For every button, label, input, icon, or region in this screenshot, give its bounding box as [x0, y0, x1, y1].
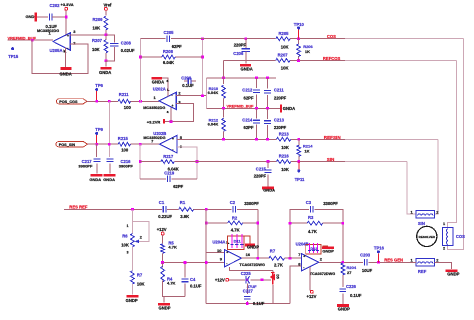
junction [222, 107, 225, 110]
capacitor C225 [246, 276, 250, 283]
svg-text:MC33502DG: MC33502DG [143, 106, 165, 110]
svg-text:R7: R7 [270, 249, 276, 254]
wire bottom bias rail [206, 303, 290, 305]
svg-text:62PF: 62PF [244, 95, 254, 100]
power symbol +3.2VR [163, 119, 165, 123]
svg-text:GNDP: GNDP [447, 271, 459, 276]
test point TP15 [11, 47, 14, 50]
wire output U204A [242, 257, 269, 259]
svg-text:C206: C206 [233, 51, 244, 56]
svg-text:+12V: +12V [157, 227, 167, 232]
svg-text:TP9: TP9 [95, 127, 103, 132]
svg-text:TP10: TP10 [294, 22, 305, 27]
svg-text:4.7K: 4.7K [231, 227, 240, 232]
junction node inverting input A [139, 100, 142, 103]
resistor R206 [298, 39, 300, 45]
op-amp U202A MC33502DG [159, 92, 176, 109]
svg-text:C2: C2 [230, 200, 236, 205]
ground GNDA C206 [240, 64, 251, 67]
wire COS loop [448, 39, 464, 250]
svg-text:0.1UF: 0.1UF [190, 283, 202, 288]
power symbol +12V U204B [310, 290, 313, 293]
wire pin9 rail [163, 261, 225, 263]
junction [139, 160, 142, 163]
junction [255, 76, 258, 79]
wire pin2 to feedback [176, 95, 207, 97]
wire output U204B [319, 261, 363, 263]
resistor R203 [104, 40, 108, 53]
capacitor C2 [233, 206, 236, 212]
wire REFCOS drop [223, 60, 225, 77]
svg-text:R7: R7 [137, 272, 143, 277]
junction [161, 261, 164, 264]
svg-text:1: 1 [127, 224, 129, 228]
svg-text:GNDP: GNDP [338, 306, 350, 311]
svg-text:1: 1 [443, 222, 445, 226]
svg-text:0.1UF: 0.1UF [253, 301, 265, 306]
svg-text:R217: R217 [163, 154, 174, 159]
svg-text:R1: R1 [180, 200, 186, 205]
junction [139, 56, 142, 59]
svg-text:100: 100 [121, 148, 129, 153]
wire [284, 257, 301, 259]
capacitor C226 [339, 289, 346, 292]
svg-text:3300PF: 3300PF [323, 201, 338, 206]
svg-text:GND: GND [26, 14, 35, 19]
svg-text:3900PF: 3900PF [78, 163, 93, 168]
pot wiper loop [132, 221, 149, 241]
svg-text:C213: C213 [274, 118, 285, 123]
wire REFCOS rail [224, 59, 276, 61]
capacitor C219 [168, 176, 171, 182]
svg-text:C202: C202 [50, 3, 61, 8]
junction [297, 160, 300, 163]
wire pin3 to divider [70, 34, 106, 36]
svg-text:COS: COS [456, 234, 465, 239]
port POS_SIN [56, 142, 88, 147]
svg-text:C209: C209 [181, 76, 192, 81]
junction [266, 107, 269, 110]
svg-text:GNDP: GNDP [159, 306, 171, 311]
junction [297, 37, 300, 40]
svg-text:R211: R211 [119, 92, 129, 97]
capacitor C3 [311, 206, 314, 212]
junction [297, 59, 300, 62]
svg-text:TP16: TP16 [374, 245, 385, 250]
svg-text:POS_CGS: POS_CGS [59, 100, 78, 104]
svg-text:0.22UF: 0.22UF [158, 214, 172, 219]
capacitor C205 [167, 36, 170, 42]
op-amp U204B V+ stub [309, 267, 311, 291]
svg-text:TCA0372DWG: TCA0372DWG [239, 263, 265, 267]
resistor R209 [104, 16, 108, 30]
wire VREFMID_BUF rail [207, 107, 280, 109]
wire REF pin2 to GNDP [434, 262, 451, 269]
wire [162, 235, 164, 243]
resistor R17 [269, 256, 285, 260]
svg-text:TCA0372DWG: TCA0372DWG [310, 272, 336, 276]
wire REFSIN loop [434, 139, 438, 214]
svg-text:C215: C215 [256, 167, 267, 172]
svg-text:RES REF: RES REF [69, 204, 88, 209]
svg-text:10K: 10K [281, 145, 289, 150]
svg-text:62PF: 62PF [172, 44, 182, 49]
junction [246, 278, 249, 281]
svg-text:220PF: 220PF [274, 95, 287, 100]
svg-text:10K: 10K [281, 66, 289, 71]
connector COS [442, 227, 452, 245]
junction [255, 107, 258, 110]
potentiometer R6 [131, 234, 135, 247]
ground GNDP R4 [163, 296, 165, 302]
wire [194, 208, 232, 210]
wire [52, 16, 66, 18]
svg-text:REFSIN: REFSIN [324, 135, 342, 140]
svg-text:C3: C3 [306, 200, 312, 205]
ground GNDP D12 [322, 245, 327, 247]
capacitor C202 [50, 14, 53, 21]
svg-text:10: 10 [217, 248, 222, 253]
wire [205, 252, 207, 303]
svg-text:GNDA: GNDA [263, 187, 275, 192]
wire C2 R2 to output [257, 209, 259, 258]
ground GNDA U202A [152, 77, 162, 80]
svg-text:U204B: U204B [296, 242, 309, 247]
wire +12V rail [228, 279, 245, 281]
svg-text:C214: C214 [242, 118, 253, 123]
resistor R205 [276, 37, 290, 41]
wire pin3 to +3.2VR [164, 103, 193, 121]
svg-text:U205A: U205A [50, 48, 63, 53]
diode network D12 [306, 245, 321, 254]
svg-text:C225: C225 [241, 271, 252, 276]
svg-text:REFCOS: REFCOS [323, 56, 341, 61]
capacitor C227 [246, 283, 248, 294]
svg-text:6.04K: 6.04K [208, 121, 219, 126]
feedback C3 R3 wires [290, 209, 309, 258]
svg-text:+12V: +12V [307, 294, 317, 299]
svg-text:R3: R3 [308, 215, 314, 220]
ground GNDP C226 [337, 304, 349, 307]
svg-text:U202A: U202A [153, 87, 166, 92]
svg-text:C227: C227 [243, 289, 254, 294]
svg-text:R207: R207 [92, 38, 103, 43]
svg-text:R208: R208 [163, 49, 174, 54]
wire [163, 281, 185, 297]
svg-text:C219: C219 [164, 171, 175, 176]
junction [201, 94, 204, 97]
svg-text:R6: R6 [122, 233, 128, 238]
wire pin6 [177, 147, 197, 179]
wire [167, 208, 179, 210]
svg-text:4.7K: 4.7K [167, 281, 176, 286]
junction [266, 76, 269, 79]
svg-text:REF: REF [418, 269, 427, 274]
ground GNDA U205A [65, 48, 67, 68]
svg-text:a: a [167, 110, 169, 114]
svg-text:+: + [226, 251, 228, 255]
svg-text:16: 16 [246, 252, 251, 257]
svg-text:C203: C203 [360, 253, 371, 258]
wire [342, 294, 344, 304]
svg-text:R2: R2 [232, 216, 238, 221]
capacitor C208 parallel [106, 35, 115, 43]
wire REFCOS loop [448, 60, 457, 227]
svg-text:TP15: TP15 [8, 54, 19, 59]
capacitor C216 wire [108, 101, 110, 157]
junction [205, 222, 208, 225]
junction [205, 208, 208, 211]
svg-text:0.02UF: 0.02UF [121, 48, 135, 53]
svg-text:62PF: 62PF [173, 184, 183, 189]
svg-text:3900PF: 3900PF [119, 163, 134, 168]
wire pot drop [131, 209, 133, 233]
junction [184, 261, 187, 264]
svg-text:10K: 10K [93, 26, 101, 31]
wire [272, 270, 274, 272]
svg-text:100: 100 [124, 105, 132, 110]
junction node [105, 33, 108, 36]
svg-text:220PF: 220PF [234, 42, 247, 47]
feedback network U202B [139, 144, 141, 179]
wire top filter rail [207, 77, 277, 79]
wire SIN rail [140, 161, 161, 163]
junction [201, 56, 204, 59]
op-amp U205A MC33502DG [53, 33, 70, 50]
svg-text:2: 2 [443, 247, 445, 251]
svg-text:GNDA: GNDA [60, 71, 72, 76]
ground GNDA C216 [103, 174, 115, 177]
op-amp U204A TCA0372DWG [225, 250, 242, 267]
connector REF [416, 258, 434, 266]
wire RES REF rail [64, 208, 162, 210]
wire [105, 30, 107, 40]
junction [297, 138, 300, 141]
resistor R1 [179, 207, 194, 211]
wire [65, 10, 67, 36]
wire feedback loop U205A [32, 40, 88, 73]
svg-text:10UF: 10UF [362, 268, 373, 273]
svg-text:SIN: SIN [327, 157, 335, 162]
resistor R5 [161, 244, 165, 254]
resistor R211 [118, 99, 130, 103]
svg-text:+: + [172, 104, 174, 108]
junction [261, 278, 264, 281]
wire [105, 10, 107, 15]
svg-text:R216: R216 [279, 153, 290, 158]
junction [256, 222, 259, 225]
svg-text:+: + [303, 255, 305, 259]
junction [255, 138, 258, 141]
junction [170, 120, 173, 123]
capacitor C213 [267, 108, 269, 119]
junction [222, 138, 225, 141]
wire R208 rail [140, 56, 161, 58]
capacitor C223 [364, 259, 367, 265]
junction [341, 261, 344, 264]
svg-text:GNDP: GNDP [126, 298, 138, 303]
svg-text:10K: 10K [281, 167, 289, 172]
svg-text:0.1UF: 0.1UF [350, 293, 362, 298]
svg-text:+: + [67, 34, 69, 38]
junction [222, 76, 225, 79]
capacitor C217 [96, 144, 98, 157]
svg-text:27: 27 [347, 270, 352, 275]
svg-text:C4: C4 [190, 277, 196, 282]
svg-text:3.9K: 3.9K [180, 214, 189, 219]
wire R2 rail [206, 222, 228, 224]
capacitor C212 [256, 78, 258, 88]
svg-text:GNDA: GNDA [241, 66, 253, 71]
svg-text:a: a [167, 79, 169, 83]
resistor R2 [228, 221, 243, 225]
svg-text:10K: 10K [137, 282, 145, 287]
capacitor C214 [256, 108, 258, 118]
wire COS rail [140, 38, 165, 40]
svg-text:+3.3VA: +3.3VA [61, 2, 74, 7]
connector SIN [416, 210, 434, 218]
svg-text:6.04K: 6.04K [163, 60, 174, 65]
svg-text:2: 2 [140, 236, 142, 240]
resistor R215 [118, 142, 130, 146]
wire [131, 100, 160, 102]
svg-text:D12: D12 [310, 247, 317, 251]
resistor R217 [161, 160, 174, 164]
svg-text:2.7K: 2.7K [274, 262, 283, 267]
svg-text:SIN: SIN [418, 221, 425, 226]
feedback network U202A wires [139, 39, 141, 102]
svg-text:R205: R205 [279, 31, 290, 36]
resistor R210 [223, 78, 225, 84]
capacitor C211 [267, 78, 269, 89]
svg-text:1K: 1K [304, 149, 309, 154]
resistor R3 [307, 221, 323, 225]
svg-text:RES GEN: RES GEN [384, 258, 403, 263]
wire filter staircase [206, 78, 208, 109]
svg-text:220PF: 220PF [254, 173, 267, 178]
ground GNDP D11 [244, 236, 250, 244]
svg-text:COS: COS [327, 34, 336, 39]
svg-text:GNDA: GNDA [152, 79, 164, 84]
resistor R214 [298, 139, 300, 145]
svg-text:VREFMID_BUF: VREFMID_BUF [227, 105, 255, 109]
resolver [417, 226, 437, 246]
capacitor C216 [107, 159, 114, 162]
svg-text:C208: C208 [121, 40, 132, 45]
diode D5 red [271, 272, 275, 284]
svg-text:GNDA: GNDA [99, 70, 111, 75]
wire U204A V- stub [230, 267, 273, 271]
svg-text:+12V: +12V [215, 277, 225, 282]
svg-text:R213: R213 [279, 131, 290, 136]
capacitor C206 [244, 37, 247, 40]
svg-text:GNDP: GNDP [322, 249, 334, 254]
op-amp U202A V+ stub to GNDA [162, 78, 168, 96]
wire pin5 REFSIN rail [177, 138, 277, 140]
wire [105, 53, 107, 61]
ground GNDP REF [445, 269, 457, 272]
junction [105, 59, 108, 62]
test point TP11 [298, 162, 300, 170]
junction [131, 208, 134, 211]
junction [289, 222, 292, 225]
svg-text:C1: C1 [159, 200, 165, 205]
junction [205, 261, 208, 264]
svg-text:C211: C211 [274, 88, 284, 93]
svg-text:0.1UF: 0.1UF [182, 83, 194, 88]
svg-text:R207: R207 [278, 53, 289, 58]
junction [95, 100, 98, 103]
wire input column [206, 209, 224, 252]
wire [131, 247, 133, 271]
wire POS_SIN [88, 143, 119, 145]
op-amp U204B TCA0372DWG [302, 254, 319, 271]
wire SIN loop [407, 162, 416, 215]
junction [201, 37, 204, 40]
svg-text:+3.2VR: +3.2VR [147, 120, 161, 125]
junction [256, 257, 259, 260]
ground GNDA C215 [262, 187, 274, 190]
svg-text:1K: 1K [305, 49, 310, 54]
svg-text:C226: C226 [346, 284, 357, 289]
svg-text:R215: R215 [118, 136, 129, 141]
port POS_CGS [56, 99, 87, 104]
junction [65, 16, 68, 19]
wire [162, 253, 164, 262]
svg-text:RESOLVER: RESOLVER [419, 235, 436, 239]
svg-text:220PF: 220PF [274, 125, 287, 130]
ground GNDA divider [105, 61, 107, 67]
wire [131, 284, 133, 295]
wire net VREFMID_BUF [8, 39, 54, 41]
svg-text:4.7K: 4.7K [168, 244, 177, 249]
svg-text:62PF: 62PF [244, 125, 254, 130]
resistor R213 [277, 137, 291, 141]
junction [267, 160, 270, 163]
svg-text:10K: 10K [121, 242, 129, 247]
op-amp U202B MC33502DG [160, 136, 177, 153]
svg-text:4.7K: 4.7K [308, 229, 317, 234]
svg-text:10K: 10K [281, 45, 289, 50]
wire POS_CGS [87, 100, 118, 102]
svg-text:+: + [172, 137, 174, 141]
svg-text:GNDA: GNDA [89, 177, 101, 182]
op-amp U202A V- stub [170, 107, 172, 121]
resistor R7 [131, 271, 135, 284]
power symbol +12V mid [226, 278, 229, 281]
resistor R257 [276, 59, 290, 63]
svg-text:TP6: TP6 [95, 83, 103, 88]
capacitor C215 [267, 162, 269, 169]
wire [131, 143, 160, 145]
junction [246, 302, 249, 305]
wire C219 rail [140, 178, 166, 180]
wire pin8 bias [290, 266, 301, 304]
svg-text:10K: 10K [92, 47, 100, 52]
junction node inverting input B [139, 143, 142, 146]
capacitor C4 [184, 262, 186, 277]
junction node U204B input [289, 257, 292, 260]
svg-text:GNDA: GNDA [283, 106, 295, 111]
capacitor C209 [184, 80, 188, 82]
svg-text:C212: C212 [242, 88, 253, 93]
junction [108, 100, 111, 103]
junction [196, 160, 199, 163]
svg-text:D5: D5 [275, 274, 279, 278]
resistor R212 [223, 108, 225, 117]
svg-text:POS_SIN: POS_SIN [59, 143, 76, 147]
ground GNDA mid bar [280, 104, 282, 112]
